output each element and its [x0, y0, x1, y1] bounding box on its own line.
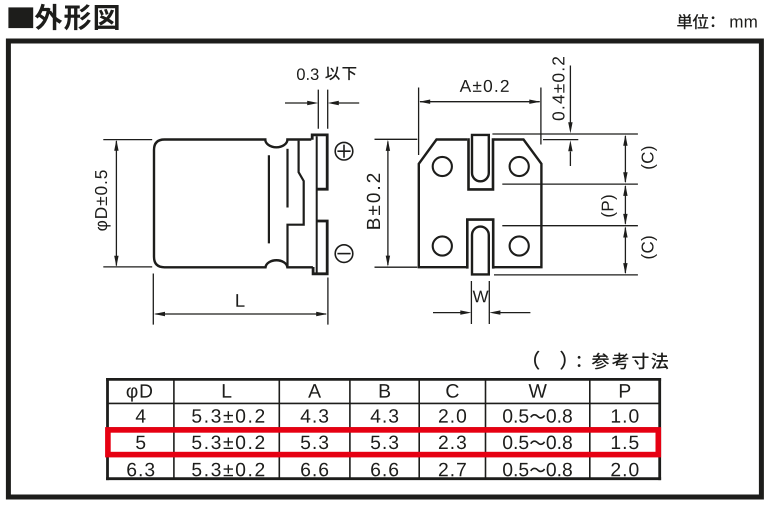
- A dimension line: [419, 100, 540, 104]
- W extension lines: [471, 281, 489, 324]
- title square bullet: [8, 7, 33, 28]
- C label top: [641, 147, 657, 169]
- unit label 単位：mm: [677, 14, 756, 29]
- seating plate edge: [316, 136, 318, 272]
- top slot mask: [467, 137, 494, 143]
- B dimension line: [386, 140, 390, 267]
- table grid: [106, 378, 661, 480]
- L label: [236, 294, 244, 307]
- P label: [601, 195, 617, 216]
- capacitor body side view: [154, 140, 313, 268]
- W arrows: [433, 310, 530, 314]
- positive pad slot: [469, 138, 494, 189]
- L dimension line: [154, 312, 327, 316]
- table header row: [127, 384, 631, 402]
- phiD label: [95, 170, 111, 230]
- phiD extension lines: [103, 140, 152, 267]
- C P extension lines: [494, 184, 638, 275]
- rubber seal inner line: [268, 155, 270, 243]
- negative terminal lead side view: [313, 221, 327, 274]
- P dimension: [623, 185, 627, 225]
- title text 外形図: [35, 4, 119, 31]
- note reference dimensions （）：参考寸法: [534, 351, 668, 370]
- 0.4 label: [552, 57, 564, 120]
- table row phiD 6.3: [127, 463, 638, 477]
- table row phiD 4: [136, 409, 639, 423]
- lead gap extension lines: [318, 90, 327, 129]
- negative terminal lead bottom view: [472, 227, 489, 275]
- C dimension top: [623, 135, 627, 184]
- A extension lines: [419, 88, 541, 156]
- capacitor body bottom view: [419, 140, 542, 268]
- highlight box on phiD 5 row: [108, 430, 658, 455]
- can end profile: [288, 141, 304, 267]
- table row phiD 5: [136, 436, 638, 450]
- seal seam line: [286, 149, 288, 208]
- C dimension bottom: [623, 226, 627, 274]
- lead gap arrows: [285, 101, 359, 105]
- negative pad slot: [467, 220, 493, 269]
- mounting hole circles: [433, 157, 529, 256]
- 0.3以下 label: [297, 67, 356, 81]
- positive terminal lead side view: [312, 135, 327, 189]
- C label bottom: [641, 236, 657, 258]
- phiD dimension line: [114, 140, 118, 267]
- 0.4 dimension arrows: [568, 66, 572, 167]
- polarity mark minus: [335, 245, 353, 263]
- positive terminal lead bottom view: [472, 135, 489, 181]
- L extension lines: [153, 274, 328, 325]
- bottom slot mask: [468, 266, 493, 269]
- W label: [473, 291, 489, 303]
- polarity mark plus: [335, 142, 353, 160]
- B extension lines: [375, 139, 418, 267]
- lead top extension line: [492, 133, 638, 135]
- A label: [460, 80, 509, 92]
- B label: [367, 174, 380, 229]
- body top extension line: [543, 139, 578, 141]
